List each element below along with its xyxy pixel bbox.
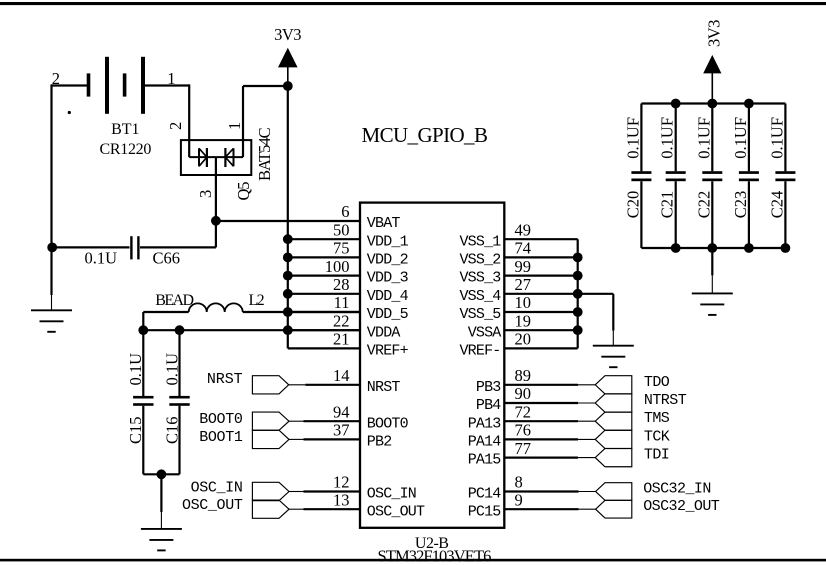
svg-text:6: 6 [341,202,349,221]
junction dot bus VDDA [283,325,293,335]
ground below left rail [31,247,72,331]
svg-text:0.1UF: 0.1UF [767,117,786,159]
svg-text:0.1UF: 0.1UF [694,117,713,159]
wire L2 to VDD_5 [243,311,360,313]
svg-text:TCK: TCK [644,428,670,445]
svg-text:72: 72 [515,402,532,421]
Q5 designator [234,182,253,201]
wire VDDA row [288,329,360,331]
label C24 value 0.1UF [767,117,786,159]
svg-text:1: 1 [225,122,244,130]
wire left rail vertical [50,84,52,247]
wire OSC32_OUT [504,508,595,510]
Q5 pin 1 label [225,122,244,130]
svg-text:0.1U: 0.1U [162,353,181,386]
port label TDO [644,374,670,391]
label C15 value 0.1U [126,353,145,386]
svg-text:BAT54C: BAT54C [255,127,274,181]
svg-text:99: 99 [515,257,532,276]
wire C15-C16 bottom rail [143,473,179,475]
wire BEAD left corner [143,312,188,330]
svg-text:27: 27 [515,275,532,294]
svg-text:VDD_4: VDD_4 [367,288,409,305]
svg-text:OSC_OUT: OSC_OUT [367,503,425,520]
svg-text:C66: C66 [153,248,181,267]
label C16 [162,416,181,444]
port BOOT1 flag [252,430,289,448]
Q5 pin 2 label [166,122,185,130]
svg-text:3: 3 [196,190,215,198]
svg-text:NTRST: NTRST [644,392,687,409]
junction dot cap bank bottom [707,243,717,253]
svg-text:BT1: BT1 [111,121,139,138]
label C21 value 0.1UF [658,117,677,159]
svg-text:3V3: 3V3 [274,25,301,44]
port label TMS [644,410,670,427]
port OSC32_OUT flag [596,500,632,518]
svg-text:19: 19 [515,311,532,330]
wire cap bank bottom rail [641,247,785,249]
power 3V3 label [274,25,301,44]
transistor Q5 BAT54C body [181,140,251,175]
label C23 [731,191,750,219]
svg-text:PC14: PC14 [468,486,502,503]
svg-text:L2: L2 [249,292,265,309]
svg-text:89: 89 [515,366,532,385]
junction dot VSS bus VSS_3 [573,271,583,281]
svg-text:OSC_IN: OSC_IN [191,479,243,496]
svg-text:74: 74 [515,239,532,258]
port label TCK [644,428,670,445]
label L2 [249,292,265,309]
svg-text:21: 21 [333,330,350,349]
port NRST flag [252,376,288,394]
svg-text:VDD_5: VDD_5 [367,306,409,323]
svg-text:PA15: PA15 [468,452,502,469]
wire VSS_4 row [504,293,577,295]
junction dot 3V3 node [283,81,293,91]
junction dot C15/C16 ground [157,469,167,479]
svg-text:NRST: NRST [367,379,401,396]
op-amp U2-B STM32F103VET6 body [360,203,504,528]
port NTRST flag [595,394,632,412]
junction dot bus VDD_4 [283,289,293,299]
Q5 part label BAT54C [255,127,274,181]
port BOOT0 flag [252,412,289,430]
wire VDD_5 row [288,311,360,313]
svg-text:VDD_1: VDD_1 [367,233,409,250]
label C20 value 0.1UF [623,117,642,159]
label C15 [126,416,145,444]
diode D-left of Q5 [199,148,207,167]
wire VSS_2 row [504,256,577,258]
svg-text:VBAT: VBAT [367,215,401,232]
port label BOOT0 [199,411,243,428]
svg-text:PC15: PC15 [468,503,502,520]
svg-text:MCU_GPIO_B: MCU_GPIO_B [362,123,488,147]
wire VDD_2 row [288,256,360,258]
svg-text:49: 49 [515,220,532,239]
svg-text:VDD_3: VDD_3 [367,270,409,287]
label C66 [153,248,181,267]
label BT1 [111,121,139,138]
svg-text:PA13: PA13 [468,415,502,432]
svg-text:C21: C21 [658,191,677,219]
label U2-B [415,535,449,552]
Q5 pin 3 label [196,190,215,198]
junction dot VSS bus VSSA [573,325,583,335]
wire BOOT0 [289,420,360,422]
svg-text:C16: C16 [162,416,181,444]
svg-text:VDD_2: VDD_2 [367,252,408,269]
svg-text:12: 12 [333,473,350,492]
junction dot VDDA/C15 [138,325,148,335]
svg-text:OSC32_IN: OSC32_IN [643,481,711,498]
svg-text:77: 77 [515,439,532,458]
wire VBAT row [216,220,360,222]
wire VREF- row [504,347,577,349]
junction dot cap bank top [707,99,717,109]
sheet bottom border [0,559,826,562]
svg-text:VSS_2: VSS_2 [459,252,500,269]
svg-text:3V3: 3V3 [705,20,724,47]
wire TDI [504,457,595,459]
wire VDD_4 row [288,293,360,295]
power 3V3 label right [705,20,724,47]
port TDO flag [595,376,632,394]
wire battery pin1 to Q5 pin2 [144,84,189,157]
wire VSS_3 row [504,275,577,277]
svg-text:VSS_5: VSS_5 [459,306,501,323]
svg-text:STM32F103VET6: STM32F103VET6 [378,546,492,565]
ground cap bank [692,248,733,315]
port label OSC_IN [191,479,243,496]
svg-text:28: 28 [333,275,350,294]
label C24 [767,191,786,219]
label C20 [623,191,642,219]
port label OSC_OUT [182,497,243,514]
wire cap bank top rail [641,102,785,104]
power 3V3 arrow [278,48,298,86]
svg-text:94: 94 [333,402,350,421]
capacitor C20 [631,104,651,249]
wire Q5 pin3 down [215,157,217,221]
Q5 internal common wire [189,156,243,158]
svg-text:TMS: TMS [644,410,670,427]
svg-text:BOOT0: BOOT0 [367,415,409,432]
wire OSC_OUT [289,508,360,510]
label C21 [658,191,677,219]
svg-text:0.1UF: 0.1UF [658,117,677,159]
svg-text:100: 100 [325,257,350,276]
svg-text:0.1U: 0.1U [126,353,145,386]
svg-text:VSSA: VSSA [468,324,502,341]
wire OSC32_IN [504,490,595,492]
wire TCK [504,438,595,440]
port TCK flag [595,430,632,448]
svg-text:NRST: NRST [207,371,243,388]
wire VDD_3 row [288,275,360,277]
svg-text:BOOT0: BOOT0 [199,411,243,428]
svg-text:VREF-: VREF- [459,343,500,360]
svg-text:0.1U: 0.1U [85,248,118,267]
capacitor C22 [702,104,722,249]
battery BT1 plates [87,57,145,114]
svg-text:2: 2 [166,122,185,130]
label C22 [694,191,713,219]
svg-text:Q5: Q5 [234,182,253,201]
pin numbers U2-B right column [515,220,532,509]
label C66 value 0.1U [85,248,118,267]
wire VSS bus vertical [577,239,579,348]
svg-text:OSC32_OUT: OSC32_OUT [643,498,720,515]
wire 3V3 bus vertical [287,86,289,348]
wire VDD_1 row [288,238,360,240]
inductor L2 [189,303,243,312]
capacitor C24 [775,104,795,249]
port label OSC32_OUT [643,498,720,515]
svg-text:37: 37 [333,421,350,440]
svg-text:50: 50 [333,220,350,239]
svg-text:PB4: PB4 [476,397,501,414]
power 3V3 arrow right [703,55,721,104]
wire BOOT1 [289,438,360,440]
svg-text:14: 14 [333,366,350,385]
svg-text:90: 90 [515,384,532,403]
junction dot VDDA/C16 [175,325,185,335]
label C22 value 0.1UF [694,117,713,159]
svg-text:C15: C15 [126,416,145,444]
junction dot bus VDD_1 [283,234,293,244]
svg-text:C22: C22 [694,191,713,219]
wire NRST [289,384,360,386]
port OSC_IN flag [252,482,289,500]
svg-text:75: 75 [333,239,350,258]
svg-text:BOOT1: BOOT1 [199,429,243,446]
junction dot bus VDD_3 [283,271,293,281]
wire NTRST [504,402,595,404]
diode D-right of Q5 [225,148,233,167]
junction dot left rail / C66 [47,243,57,253]
svg-text:TDI: TDI [644,447,669,464]
capacitor C66 [52,221,216,260]
svg-text:20: 20 [515,330,532,349]
svg-text:PA14: PA14 [468,434,502,451]
wire TDO [504,384,595,386]
junction dot cap bank top [744,99,754,109]
svg-text:9: 9 [515,490,523,509]
pin labels U2-B right column [459,233,501,520]
svg-text:VSS_1: VSS_1 [459,233,501,250]
junction dot VSS bus VSS_5 [573,307,583,317]
wire VSSA row [504,329,577,331]
pin numbers U2-B left column [325,202,350,509]
svg-text:BEAD: BEAD [155,292,193,309]
capacitor C21 [666,104,686,249]
junction dot cap bank bottom [744,243,754,253]
wire VSS_5 row [504,311,577,313]
ground below C15 C16 [141,474,182,550]
svg-text:22: 22 [333,311,350,330]
capacitor C15 [133,330,153,474]
port label NTRST [644,392,687,409]
svg-text:C20: C20 [623,191,642,219]
junction dot bus VDD_2 [283,253,293,263]
svg-text:CR1220: CR1220 [100,141,152,158]
svg-text:C23: C23 [731,191,750,219]
junction dot VBAT node [211,216,221,226]
svg-text:OSC_IN: OSC_IN [367,486,416,503]
port label NRST [207,371,243,388]
svg-text:TDO: TDO [644,374,670,391]
title text MCU_GPIO_B [362,123,488,147]
junction dot cap bank top [671,99,681,109]
wire TMS [504,420,595,422]
port TDI flag [595,448,632,466]
wire Q5 pin1 up to 3V3 [243,86,288,157]
stray dot mark [68,111,71,114]
ground VSS [593,294,634,367]
svg-text:VSS_3: VSS_3 [459,270,501,287]
svg-text:PB3: PB3 [476,379,501,396]
svg-text:0.1UF: 0.1UF [623,117,642,159]
battery pin 2 number [52,69,60,88]
svg-text:8: 8 [515,473,523,492]
pin labels U2-B left column [367,215,425,520]
svg-text:11: 11 [334,293,350,312]
svg-text:76: 76 [515,421,532,440]
wire OSC_IN [289,491,360,493]
junction dot VSS bus VSS_2 [573,253,583,263]
svg-text:OSC_OUT: OSC_OUT [182,497,243,514]
wire VSS to ground [578,293,614,295]
svg-text:VDDA: VDDA [367,324,401,341]
svg-text:VSS_4: VSS_4 [459,288,501,305]
capacitor C16 [169,330,189,474]
svg-text:VREF+: VREF+ [367,343,409,360]
port OSC_OUT flag [252,500,289,518]
port TMS flag [595,412,632,430]
junction dot cap bank bottom [781,243,791,253]
sheet top border [0,2,826,5]
port label BOOT1 [199,429,243,446]
wire battery pin 2 to left rail [52,84,89,86]
svg-text:10: 10 [515,293,532,312]
battery pin 1 number [167,69,175,88]
label C23 value 0.1UF [731,117,750,159]
svg-text:13: 13 [333,490,350,509]
label STM32F103VET6 [378,546,492,565]
label BEAD [155,292,193,309]
label CR1220 [100,141,152,158]
capacitor C23 [739,104,759,249]
label C16 value 0.1U [162,353,181,386]
wire VREF+ corner [288,347,360,349]
junction dot bus VDD_5 [283,307,293,317]
svg-text:PB2: PB2 [367,434,392,451]
svg-text:2: 2 [52,69,60,88]
svg-text:C24: C24 [767,191,786,219]
svg-text:0.1UF: 0.1UF [731,117,750,159]
port OSC32_IN flag [596,483,632,501]
junction dot cap bank bottom [671,243,681,253]
wire VDDA rail [143,329,360,331]
junction dot VSS bus VSS_4 [573,289,583,299]
port label TDI [644,447,669,464]
wire VSS_1 row [504,238,577,240]
port label OSC32_IN [643,481,711,498]
